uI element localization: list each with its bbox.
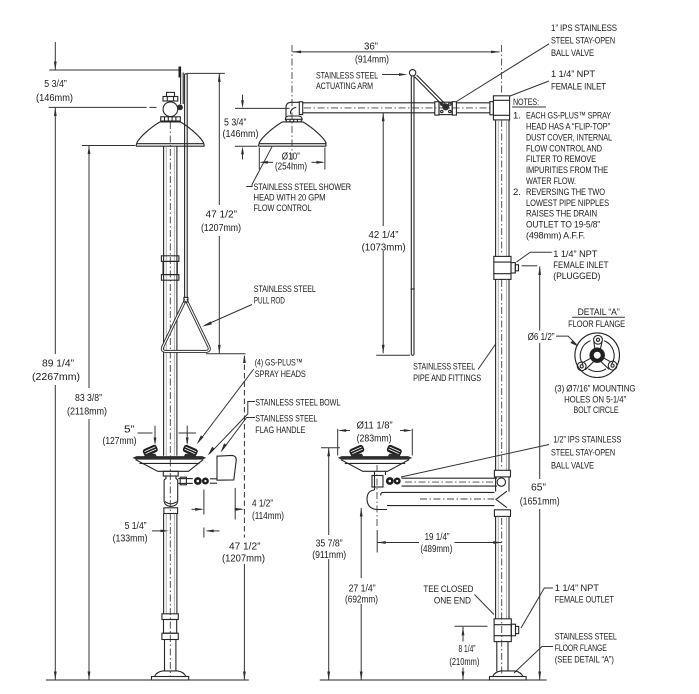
ground line right view bbox=[320, 679, 547, 681]
bottom tee fitting on riser bbox=[494, 619, 511, 642]
collar band right view bbox=[286, 119, 301, 122]
svg-text:(3) Ø7/16” MOUNTING: (3) Ø7/16” MOUNTING bbox=[555, 384, 636, 395]
base nipple bbox=[164, 640, 166, 672]
svg-text:1 1/4” NPT: 1 1/4” NPT bbox=[551, 69, 595, 80]
svg-text:HOLES ON 5-1/4”: HOLES ON 5-1/4” bbox=[564, 394, 626, 405]
pull rod eye ring bbox=[409, 70, 415, 76]
svg-text:(254mm): (254mm) bbox=[275, 161, 307, 172]
svg-text:1 1/4” NPT: 1 1/4” NPT bbox=[553, 249, 597, 260]
svg-text:FEMALE INLET: FEMALE INLET bbox=[553, 260, 608, 271]
dim Ø10 extension lines bbox=[258, 148, 260, 170]
shower ball bbox=[163, 102, 178, 117]
chevron pipe end at riser bbox=[496, 491, 507, 507]
dim 5 3/4 right view ref lines bbox=[235, 107, 290, 109]
ref line 65 dim at plug centerline bbox=[522, 265, 538, 267]
svg-text:ACTUATING ARM: ACTUATING ARM bbox=[316, 81, 373, 92]
svg-text:42 1/4”: 42 1/4” bbox=[369, 230, 399, 241]
spray head right bbox=[182, 444, 199, 457]
svg-text:(PLUGGED): (PLUGGED) bbox=[553, 271, 600, 282]
svg-text:1” IPS STAINLESS: 1” IPS STAINLESS bbox=[551, 23, 617, 34]
flange hub bbox=[592, 350, 602, 360]
svg-text:5 3/4”: 5 3/4” bbox=[44, 79, 67, 90]
svg-text:DUST COVER, INTERNAL: DUST COVER, INTERNAL bbox=[526, 132, 613, 143]
leader arrow actuating arm bbox=[382, 74, 404, 76]
pull rod right view bbox=[410, 76, 412, 354]
svg-text:(498mm) A.F.F.: (498mm) A.F.F. bbox=[526, 231, 585, 242]
svg-text:FILTER TO REMOVE: FILTER TO REMOVE bbox=[526, 154, 596, 165]
actuating arm lever bbox=[415, 77, 443, 105]
dim 42 1/4 vertical line bbox=[382, 113, 384, 226]
svg-text:STAINLESS STEEL: STAINLESS STEEL bbox=[316, 71, 379, 82]
pipe centerline bbox=[304, 107, 490, 109]
dim 35 7/8 vertical line bbox=[328, 448, 330, 535]
dim 19 1/4 horizontal line bbox=[377, 542, 419, 544]
dim 47 1/2 lower dashed line bbox=[243, 356, 245, 538]
ref line top of pipe (5 3/4 upper) bbox=[49, 69, 180, 71]
eyewash bowl rim right view bbox=[338, 456, 413, 460]
floor flange left view bbox=[155, 671, 186, 677]
svg-text:FLOW CONTROL: FLOW CONTROL bbox=[254, 203, 313, 214]
svg-text:1 1/4” NPT: 1 1/4” NPT bbox=[555, 583, 599, 594]
svg-text:FEMALE OUTLET: FEMALE OUTLET bbox=[555, 595, 614, 606]
shower bell left view bbox=[137, 122, 204, 144]
leader bowl bbox=[210, 402, 256, 454]
svg-text:REVERSING THE TWO: REVERSING THE TWO bbox=[526, 187, 605, 198]
svg-text:BOLT CIRCLE: BOLT CIRCLE bbox=[574, 405, 619, 416]
svg-text:5 3/4”: 5 3/4” bbox=[224, 118, 247, 129]
bowl centerline right view bbox=[376, 465, 378, 529]
svg-text:(1207mm): (1207mm) bbox=[201, 223, 241, 234]
waste arm pipe lower bbox=[386, 491, 495, 493]
valve pivot dot bbox=[442, 103, 449, 110]
svg-text:HEAD HAS A “FLIP-TOP”: HEAD HAS A “FLIP-TOP” bbox=[526, 122, 610, 133]
pull rod upper section bbox=[185, 74, 188, 298]
riser pipe middle bbox=[495, 279, 497, 470]
dim 4 1/2 extension line at valve center bbox=[203, 490, 205, 515]
riser couplings at arm junction bbox=[494, 470, 510, 477]
ref line pull rod bottom right view bbox=[376, 354, 410, 356]
leader tee closed bbox=[475, 595, 495, 615]
leader 1 IPS ball valve bbox=[457, 44, 550, 102]
svg-text:STAINLESS STEEL: STAINLESS STEEL bbox=[413, 362, 476, 373]
svg-text:HEAD WITH 20 GPM: HEAD WITH 20 GPM bbox=[254, 193, 326, 204]
svg-text:STAINLESS STEEL: STAINLESS STEEL bbox=[254, 284, 317, 295]
dim 19 1/4 extension bbox=[376, 530, 378, 553]
dim 4 1/2 arrows bbox=[192, 508, 202, 510]
centerline shower head right view bbox=[291, 45, 293, 169]
ref line ball centerline (89 1/4 top / 5 3/4 lower) bbox=[49, 106, 147, 108]
svg-text:(2118mm): (2118mm) bbox=[67, 407, 107, 418]
standpipe union coupling bbox=[161, 256, 179, 262]
horizontal supply pipe bbox=[303, 102, 435, 104]
leader spray heads bbox=[199, 369, 254, 442]
leader 1/2 IPS ball valve bbox=[401, 445, 549, 478]
svg-text:8 1/4”: 8 1/4” bbox=[459, 644, 476, 655]
svg-text:(4) GS-PLUS™: (4) GS-PLUS™ bbox=[255, 358, 303, 369]
svg-text:27 1/4”: 27 1/4” bbox=[349, 584, 376, 595]
ref line bottom of shower head (83 3/8 top) bbox=[82, 145, 135, 147]
ref line pull rod bottom left view bbox=[206, 353, 246, 355]
shower neck bulge right view bbox=[285, 116, 302, 120]
dim 8 1/4 vertical line bbox=[462, 627, 464, 642]
valve nipple right of trap bbox=[178, 478, 193, 480]
bolt ear lower left bbox=[577, 362, 586, 371]
svg-text:(914mm): (914mm) bbox=[355, 55, 389, 66]
svg-text:(146mm): (146mm) bbox=[223, 129, 259, 140]
pull rod pivot ball bbox=[177, 104, 183, 110]
svg-text:1/2” IPS STAINLESS: 1/2” IPS STAINLESS bbox=[553, 435, 621, 446]
svg-text:(114mm): (114mm) bbox=[252, 511, 284, 522]
svg-text:(692mm): (692mm) bbox=[345, 595, 378, 606]
pull rod triangle handle bbox=[162, 300, 209, 352]
svg-text:TEE CLOSED: TEE CLOSED bbox=[423, 584, 473, 595]
svg-text:(489mm): (489mm) bbox=[420, 544, 452, 555]
svg-text:(146mm): (146mm) bbox=[36, 93, 73, 104]
riser bottom nipple bbox=[496, 642, 498, 672]
dim 83 3/8 vertical line bbox=[88, 146, 90, 389]
svg-text:Ø6 1/2”: Ø6 1/2” bbox=[528, 332, 555, 343]
svg-text:65”: 65” bbox=[531, 483, 546, 494]
svg-text:(210mm): (210mm) bbox=[449, 657, 479, 668]
svg-text:NOTES:: NOTES: bbox=[513, 97, 539, 108]
svg-text:Ø11 1/8”: Ø11 1/8” bbox=[357, 420, 393, 431]
trap coupling bbox=[164, 508, 178, 514]
leader pipe and fittings bbox=[478, 344, 496, 370]
svg-text:FLOOR FLANGE: FLOOR FLANGE bbox=[568, 319, 625, 330]
svg-text:(283mm): (283mm) bbox=[357, 434, 392, 445]
eyewash bowl body left view bbox=[136, 460, 204, 472]
leader 1 1/4 NPT female inlet bbox=[510, 81, 549, 96]
eyewash bowl rim left view bbox=[132, 456, 206, 460]
riser pipe lower bbox=[495, 516, 497, 618]
dim Ø11 1/8 arrows bbox=[340, 430, 350, 432]
dim 65 vertical line bbox=[539, 267, 541, 331]
dim 5 3/4 right view arrows bbox=[242, 95, 244, 101]
supply valve tee at bowl bbox=[372, 476, 383, 488]
svg-text:(SEE DETAIL “A”): (SEE DETAIL “A”) bbox=[555, 655, 614, 666]
shower head collar band bbox=[161, 117, 181, 121]
eyewash bowl body right view bbox=[341, 460, 409, 472]
leader shower head label bbox=[246, 147, 272, 187]
ground line left view bbox=[46, 679, 249, 681]
svg-text:47 1/2”: 47 1/2” bbox=[229, 542, 261, 553]
svg-text:1.: 1. bbox=[513, 111, 521, 122]
svg-text:STAINLESS STEEL: STAINLESS STEEL bbox=[255, 414, 318, 425]
svg-text:DETAIL “A”: DETAIL “A” bbox=[578, 307, 620, 318]
dim Ø10 arrows bbox=[262, 161, 274, 163]
leader floor flange bbox=[514, 647, 553, 674]
svg-text:STAINLESS STEEL: STAINLESS STEEL bbox=[555, 632, 618, 643]
stainless steel flag handle bbox=[217, 455, 236, 480]
centerline left unit bbox=[169, 122, 171, 676]
centerline riser top bbox=[501, 45, 503, 95]
bowl tailpiece right view bbox=[374, 471, 376, 490]
leader pull rod bbox=[205, 305, 253, 326]
svg-text:STAINLESS STEEL BOWL: STAINLESS STEEL BOWL bbox=[255, 398, 341, 409]
svg-text:19 1/4”: 19 1/4” bbox=[425, 532, 450, 543]
svg-text:FEMALE INLET: FEMALE INLET bbox=[551, 82, 606, 93]
svg-text:(1651mm): (1651mm) bbox=[520, 497, 560, 508]
svg-text:(127mm): (127mm) bbox=[103, 436, 137, 447]
trap pipe bbox=[164, 476, 178, 506]
ref line pipe top right side (47 1/2 upper) bbox=[187, 72, 225, 74]
svg-text:RAISES THE DRAIN: RAISES THE DRAIN bbox=[526, 209, 597, 220]
svg-text:2.: 2. bbox=[513, 187, 521, 198]
svg-text:ONE END: ONE END bbox=[434, 596, 471, 607]
leader flag handle bbox=[222, 418, 255, 451]
svg-text:IMPURITIES FROM THE: IMPURITIES FROM THE bbox=[526, 165, 608, 176]
riser edges at arm junction bbox=[495, 477, 497, 492]
spray head left bbox=[142, 444, 159, 457]
ref line 8 1/4 at tee top bbox=[455, 625, 488, 627]
leader female outlet bbox=[521, 588, 553, 628]
dim Ø11 1/8 extension lines bbox=[337, 429, 339, 456]
svg-text:5 1/4”: 5 1/4” bbox=[125, 521, 147, 532]
svg-text:PIPE AND FITTINGS: PIPE AND FITTINGS bbox=[413, 373, 481, 384]
svg-text:STEEL STAY-OPEN: STEEL STAY-OPEN bbox=[551, 448, 615, 459]
svg-text:(1073mm): (1073mm) bbox=[362, 243, 406, 254]
valve linkage rod bbox=[180, 73, 182, 105]
rod joint tick bbox=[411, 288, 415, 290]
bolt ear lower right bbox=[608, 361, 617, 370]
valve outlet stem bbox=[210, 478, 217, 480]
bowl tailpiece flange bbox=[163, 471, 178, 476]
svg-text:(133mm): (133mm) bbox=[113, 534, 148, 545]
dim 5 1/4 arrows bbox=[152, 530, 167, 532]
svg-text:BALL VALVE: BALL VALVE bbox=[551, 48, 594, 59]
svg-text:(1207mm): (1207mm) bbox=[222, 554, 265, 565]
svg-text:SPRAY HEADS: SPRAY HEADS bbox=[255, 369, 306, 380]
pedestal union coupling bbox=[162, 614, 178, 620]
dim 36 horizontal line bbox=[293, 51, 500, 53]
svg-text:4 1/2”: 4 1/2” bbox=[252, 499, 273, 510]
supply arm pipe upper bbox=[402, 477, 498, 479]
svg-text:PULL ROD: PULL ROD bbox=[254, 296, 285, 307]
svg-text:LOWEST PIPE NIPPLES: LOWEST PIPE NIPPLES bbox=[526, 198, 609, 209]
svg-text:STEEL STAY-OPEN: STEEL STAY-OPEN bbox=[551, 36, 615, 47]
bell rim right view bbox=[258, 144, 326, 147]
elbow flange bbox=[299, 102, 302, 115]
floor flange detail A circle bbox=[575, 333, 620, 378]
spray head right bowl right bbox=[386, 444, 403, 457]
ref line spray head tip right view bbox=[321, 447, 340, 449]
riser centerline bbox=[501, 120, 503, 255]
pedestal pipe bbox=[163, 514, 165, 614]
flange web arcs bbox=[580, 341, 590, 365]
svg-text:36”: 36” bbox=[364, 42, 378, 53]
svg-text:5”: 5” bbox=[124, 425, 135, 436]
svg-text:89 1/4”: 89 1/4” bbox=[42, 359, 74, 370]
svg-text:(2267mm): (2267mm) bbox=[32, 372, 80, 383]
svg-text:BALL VALVE: BALL VALVE bbox=[551, 461, 594, 472]
tee fitting top of riser bbox=[493, 96, 509, 120]
shower ball fitting top block bbox=[167, 92, 175, 96]
svg-text:STAINLESS STEEL SHOWER: STAINLESS STEEL SHOWER bbox=[254, 182, 352, 193]
svg-text:83 3/8”: 83 3/8” bbox=[75, 393, 102, 404]
arm elbow circle at riser bbox=[497, 478, 505, 486]
leader 1 1/4 NPT female inlet plugged bbox=[517, 252, 552, 262]
shower bell right view bbox=[259, 122, 326, 144]
bolt ear top bbox=[594, 335, 603, 344]
pull rod triangle top fitting bbox=[184, 297, 188, 302]
floor flange right view bbox=[493, 671, 523, 677]
riser pipe upper bbox=[495, 120, 497, 257]
plugged tee fitting bbox=[494, 256, 511, 279]
dim 5 3/4 vertical line with arrows bbox=[54, 42, 56, 70]
spray head right bowl left bbox=[348, 444, 365, 457]
svg-text:EACH GS-PLUS™ SPRAY: EACH GS-PLUS™ SPRAY bbox=[526, 111, 612, 122]
svg-text:FLAG HANDLE: FLAG HANDLE bbox=[255, 425, 305, 436]
svg-text:35 7/8”: 35 7/8” bbox=[316, 539, 343, 550]
dim 47 1/2 upper vertical line bbox=[218, 73, 220, 205]
waste elbow below bowl bbox=[367, 490, 387, 510]
standpipe below bell bbox=[163, 146, 165, 456]
svg-text:OUTLET TO 19-5/8”: OUTLET TO 19-5/8” bbox=[526, 220, 600, 231]
svg-text:FLOW CONTROL AND: FLOW CONTROL AND bbox=[526, 143, 602, 154]
svg-text:(911mm): (911mm) bbox=[312, 550, 346, 561]
dim 89 1/4 vertical line bbox=[54, 107, 56, 354]
flag handle valve body bbox=[194, 477, 202, 485]
shower elbow right view bbox=[286, 102, 299, 117]
dim 27 1/4 vertical line bbox=[360, 508, 362, 578]
svg-text:FLOOR FLANGE: FLOOR FLANGE bbox=[555, 643, 607, 654]
dim 4 1/2 extension line at flag end bbox=[234, 488, 236, 520]
shower ball fitting flange bar bbox=[163, 97, 178, 102]
svg-text:WATER FLOW.: WATER FLOW. bbox=[526, 176, 576, 187]
pull rod lever tick (top) bbox=[179, 67, 182, 78]
ball valve body on pipe bbox=[439, 102, 452, 114]
shower bell rim bbox=[136, 144, 204, 147]
svg-text:47 1/2”: 47 1/2” bbox=[206, 210, 238, 221]
